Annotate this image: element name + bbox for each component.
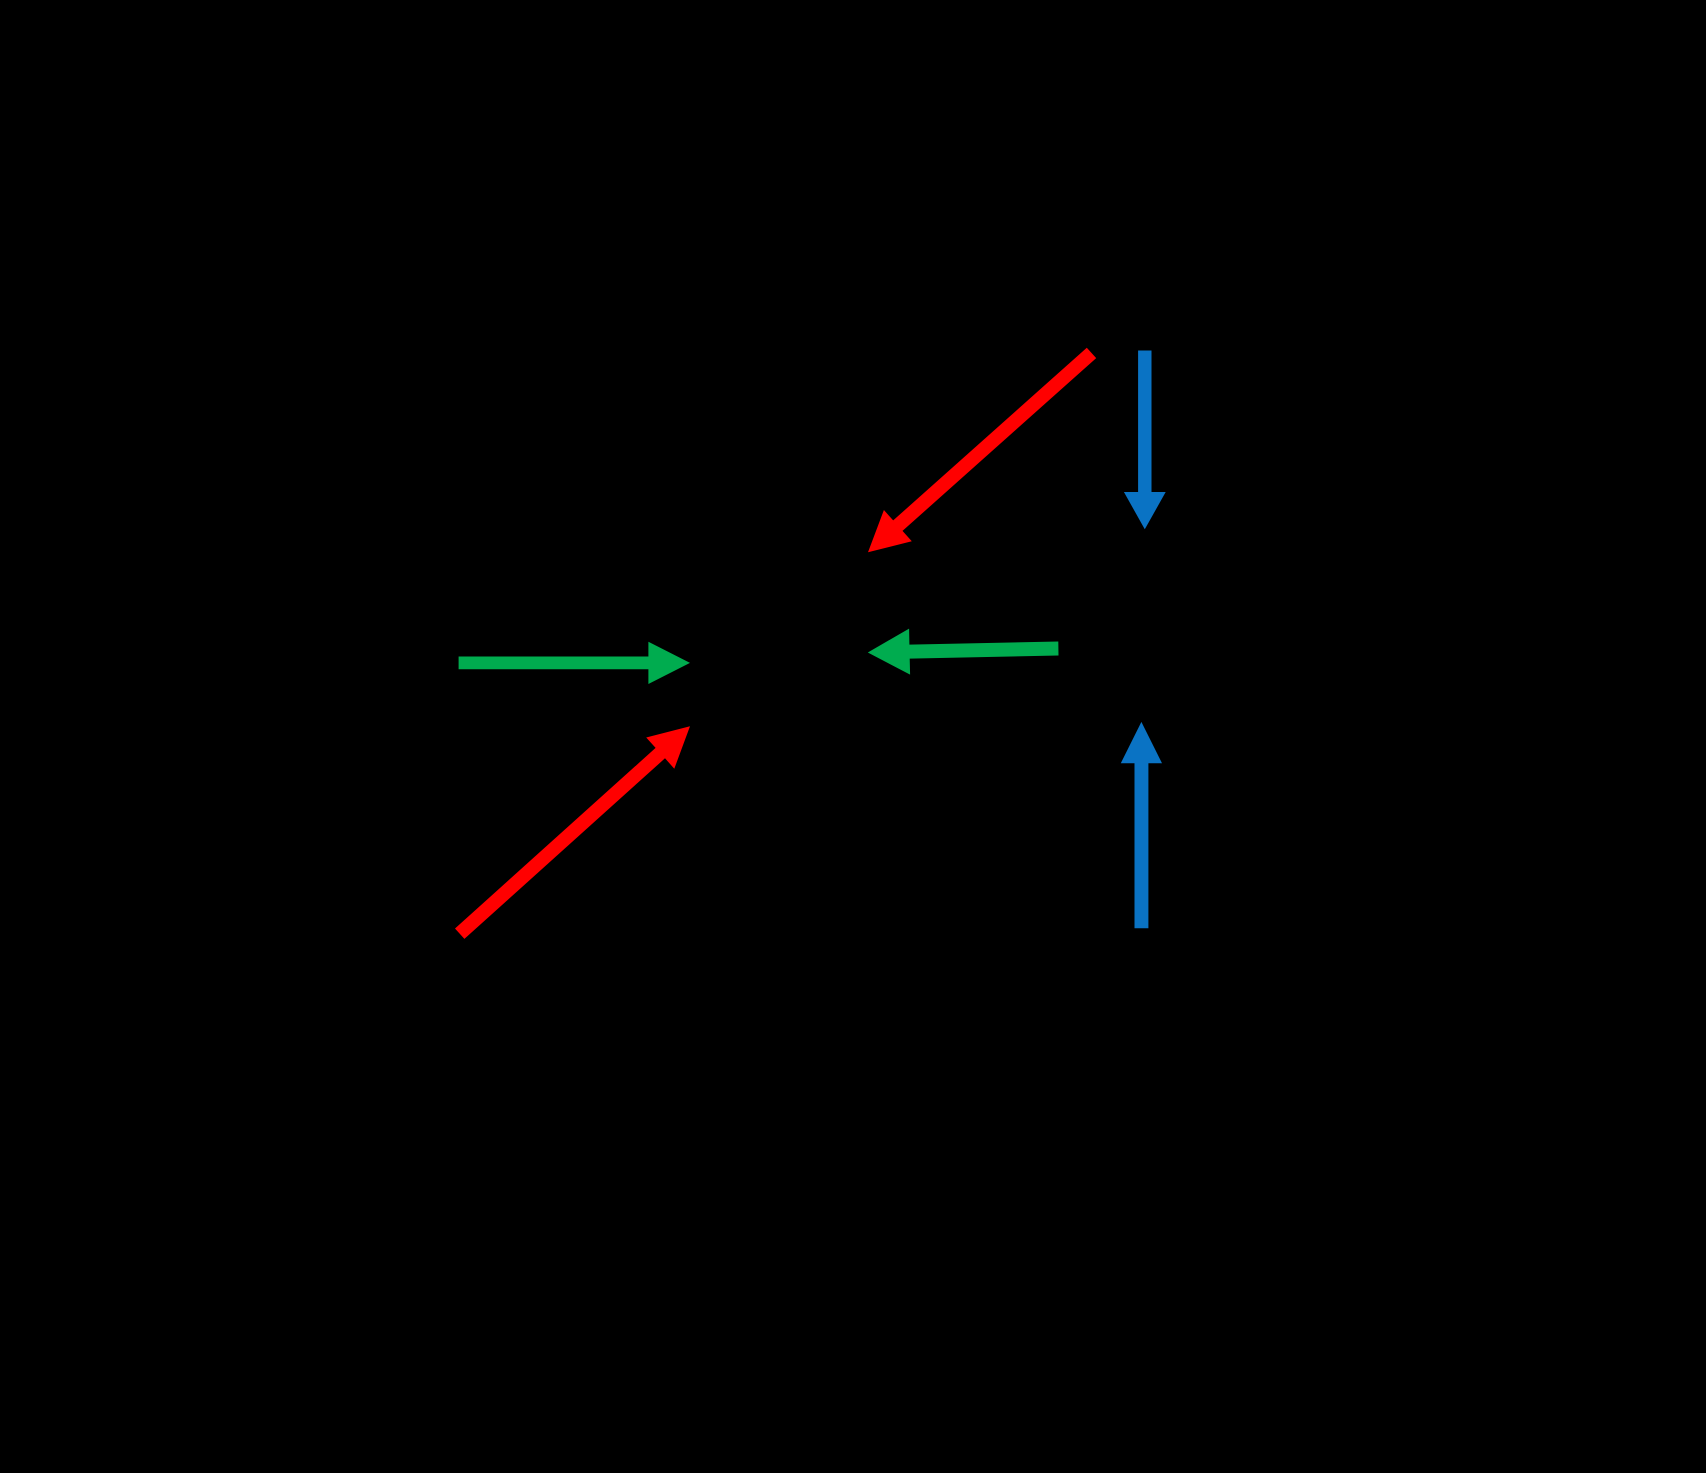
green arrow pointing right (459, 642, 690, 684)
green arrow pointing left (868, 629, 1059, 675)
blue arrow pointing down (1124, 351, 1166, 530)
blue arrow pointing up (1121, 722, 1162, 928)
red arrow pointing up-right (bottom) (455, 726, 690, 939)
red arrow pointing down-left (top) (868, 348, 1096, 553)
